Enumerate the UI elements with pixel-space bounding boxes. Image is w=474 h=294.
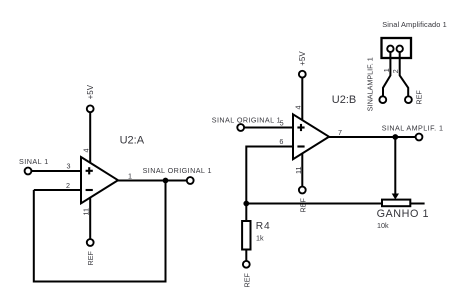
wire pin 4 to +5V (U2:B): [301, 77, 303, 120]
svg-text:SINAL 1: SINAL 1: [19, 157, 49, 166]
wire pot left lead: [246, 203, 382, 205]
op-amp U2:A triangle: [81, 157, 118, 203]
U2:B plus input symbol: [297, 124, 304, 131]
wire pin 2: [34, 189, 81, 191]
svg-text:11: 11: [82, 208, 91, 215]
svg-text:1k: 1k: [256, 234, 264, 243]
wire connector pin 1: [383, 52, 390, 97]
svg-text:REF: REF: [298, 198, 307, 213]
svg-text:Sinal Amplificado 1: Sinal Amplificado 1: [382, 20, 447, 29]
terminal REF (R4): [243, 261, 250, 268]
svg-text:REF: REF: [86, 251, 95, 266]
wire connector pin 2: [400, 52, 409, 97]
svg-text:U2:B: U2:B: [332, 94, 356, 106]
potentiometer GANHO 1 body: [382, 200, 410, 207]
terminal +5V (U2:B): [299, 71, 306, 78]
svg-text:6: 6: [279, 137, 283, 146]
connector J body: [382, 38, 412, 58]
junction output U2:B: [392, 134, 398, 140]
svg-text:GANHO 1: GANHO 1: [377, 208, 429, 220]
svg-text:U2:A: U2:A: [120, 135, 145, 147]
U2:A minus input symbol: [86, 189, 93, 191]
terminal SINAL ORIGINAL 1 (right): [237, 124, 244, 131]
svg-text:2: 2: [391, 69, 400, 73]
svg-text:10k: 10k: [377, 221, 389, 230]
svg-text:REF: REF: [415, 90, 424, 105]
wire pin 4 to +5V: [89, 112, 91, 164]
wire feedback loop: [34, 181, 166, 282]
svg-text:+5V: +5V: [298, 51, 307, 66]
wire pin 6 to node: [246, 147, 293, 204]
connector pin circle 1: [387, 46, 393, 52]
wire pin 11 to REF: [89, 197, 91, 239]
wiper arrowhead: [392, 194, 399, 200]
wire junction to R4: [245, 204, 247, 222]
wire R4 to REF: [245, 250, 247, 262]
wire output U2:A: [118, 180, 187, 182]
U2:A plus input symbol: [86, 167, 93, 174]
wire pot right lead: [410, 203, 424, 205]
svg-text:SINAL ORIGINAL 1: SINAL ORIGINAL 1: [143, 166, 212, 175]
svg-text:4: 4: [81, 149, 90, 153]
svg-text:7: 7: [338, 128, 342, 137]
svg-text:R4: R4: [256, 221, 271, 232]
svg-text:SINAL ORIGINAL 1: SINAL ORIGINAL 1: [212, 115, 281, 124]
resistor R4 body: [242, 221, 250, 250]
terminal SINAL ORIGINAL 1 (left): [187, 177, 194, 184]
wire output U2:B: [329, 136, 416, 138]
wire pin 11 to REF (U2:B): [301, 153, 303, 186]
wire wiper vertical: [394, 137, 396, 194]
svg-text:SINALAMPLIF. 1: SINALAMPLIF. 1: [366, 57, 375, 111]
svg-text:REF: REF: [242, 273, 251, 288]
op-amp U2:B triangle: [293, 114, 329, 159]
terminal REF (U2:A): [87, 239, 94, 246]
svg-text:5: 5: [280, 119, 284, 128]
wire to pin 5: [244, 127, 293, 129]
junction output U2:A: [163, 178, 169, 184]
junction R4 node: [243, 201, 249, 207]
terminal SINAL AMPLIF. 1: [416, 134, 423, 141]
svg-text:3: 3: [67, 162, 71, 171]
svg-text:1: 1: [128, 171, 132, 180]
svg-text:1: 1: [382, 68, 391, 72]
svg-text:11: 11: [294, 167, 303, 174]
svg-text:2: 2: [66, 181, 70, 190]
svg-text:+5V: +5V: [86, 84, 95, 99]
terminal REF (connector): [405, 96, 412, 103]
terminal SINALAMPLIF. 1: [379, 96, 386, 103]
svg-text:SINAL AMPLIF. 1: SINAL AMPLIF. 1: [382, 123, 444, 132]
svg-text:4: 4: [294, 106, 303, 110]
terminal REF (U2:B): [299, 187, 306, 194]
connector pin circle 2: [397, 46, 403, 52]
wire SINAL1 to pin 3: [31, 170, 81, 172]
U2:B minus input symbol: [297, 145, 304, 147]
terminal +5V (U2:A): [87, 105, 94, 112]
terminal SINAL 1: [25, 168, 32, 175]
